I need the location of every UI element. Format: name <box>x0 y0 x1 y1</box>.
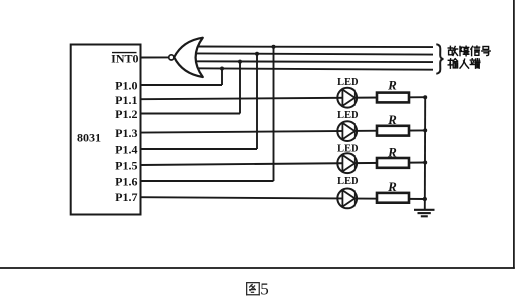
svg-text:P1.5: P1.5 <box>115 159 137 173</box>
svg-text:LED: LED <box>337 77 359 88</box>
svg-text:R: R <box>387 112 397 127</box>
svg-text:LED: LED <box>337 110 359 121</box>
svg-text:R: R <box>387 78 397 93</box>
svg-text:R: R <box>387 179 397 194</box>
svg-text:5: 5 <box>260 280 269 299</box>
svg-text:LED: LED <box>337 176 359 187</box>
svg-text:P1.3: P1.3 <box>115 126 137 140</box>
svg-text:P1.7: P1.7 <box>115 190 137 204</box>
svg-text:P1.2: P1.2 <box>115 107 137 121</box>
svg-text:P1.1: P1.1 <box>115 93 137 107</box>
svg-text:P1.0: P1.0 <box>115 79 137 93</box>
svg-text:LED: LED <box>337 143 359 154</box>
svg-text:R: R <box>387 144 397 159</box>
svg-text:P1.6: P1.6 <box>115 175 137 189</box>
svg-text:INT0: INT0 <box>111 52 138 66</box>
svg-text:8031: 8031 <box>77 131 101 145</box>
svg-text:P1.4: P1.4 <box>115 143 137 157</box>
